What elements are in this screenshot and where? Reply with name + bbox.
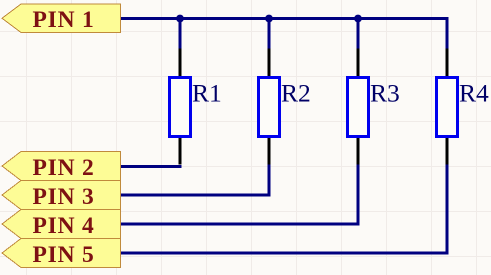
resistor R2 (leads and body): [259, 49, 280, 165]
svg-text:R2: R2: [281, 78, 311, 107]
svg-text:PIN 5: PIN 5: [33, 242, 95, 268]
wire: vertical drop from top bus to R2 pin 1: [268, 17, 271, 49]
svg-text:PIN 2: PIN 2: [33, 155, 95, 181]
wire: net PIN4, horizontal from port PIN 4 to R3: [121, 223, 360, 226]
wire: net PIN3, horizontal from port PIN 3 to R2: [121, 194, 271, 197]
resistor R4 (leads and body): [437, 49, 458, 165]
port PIN 3: [2, 181, 121, 211]
junction dot at R1 / top bus: [176, 15, 184, 23]
junction dot at R3 / top bus: [354, 15, 362, 23]
port PIN 4: [2, 210, 121, 240]
svg-text:PIN 1: PIN 1: [33, 7, 95, 33]
port PIN 1: [2, 4, 121, 33]
wire: net PIN2, horizontal from port PIN 2 to R1 pin 2: [121, 165, 182, 168]
svg-text:PIN 3: PIN 3: [33, 184, 95, 210]
port PIN 5: [2, 239, 121, 269]
svg-text:R4: R4: [459, 78, 489, 107]
resistor R1 (leads and body): [170, 49, 191, 165]
resistor R3 (leads and body): [348, 49, 369, 165]
svg-text:R1: R1: [192, 78, 222, 107]
wire: corner drop from top bus to R4 pin 1: [446, 17, 449, 49]
wire: net PIN5, R4 pin 2 vertical segment: [446, 164, 449, 255]
wire: net PIN5, horizontal from port PIN 5 to R4: [121, 252, 449, 255]
wire: vertical drop from top bus to R1 pin 1: [179, 17, 182, 49]
svg-text:PIN 4: PIN 4: [33, 213, 95, 239]
svg-text:R3: R3: [370, 78, 400, 107]
wire: net PIN1 top bus, horizontal from port PIN 1 to R4: [121, 17, 449, 20]
wire: net PIN4, R3 pin 2 vertical segment: [357, 164, 360, 226]
wire: net PIN3, R2 pin 2 vertical segment: [268, 164, 271, 197]
wire: vertical drop from top bus to R3 pin 1: [357, 17, 360, 49]
junction dot at R2 / top bus: [265, 15, 273, 23]
port PIN 2: [2, 152, 121, 182]
